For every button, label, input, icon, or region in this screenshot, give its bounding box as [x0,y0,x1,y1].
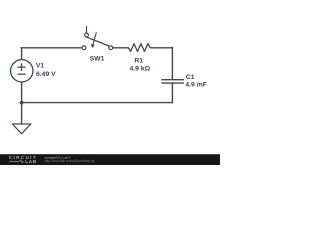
wire V1 top to top-left corner [21,48,23,60]
SW1 top throw stub [86,26,88,33]
footer logo LAB [9,160,20,162]
svg-text:http://circuitlab.com/c/5ymvfa: http://circuitlab.com/c/5ymvfasq/1gt [45,159,95,163]
svg-text:4.9 mF: 4.9 mF [185,82,207,89]
svg-text:SW1: SW1 [90,55,105,62]
svg-text:6.49 V: 6.49 V [36,71,56,78]
resistor R1 [128,44,150,52]
SW1 right terminal [109,46,113,50]
junction node [20,101,24,105]
SW1 top terminal [85,33,89,37]
wire top-left horizontal to switch [21,47,82,49]
wire bottom horizontal [22,102,173,104]
wire switch right terminal to resistor [113,47,129,49]
svg-text:C1: C1 [186,74,195,81]
switch SW1 [82,26,113,49]
SW1 lever [86,37,109,46]
wire junction to ground [21,103,23,124]
footer bar [0,154,220,165]
svg-text:R1: R1 [134,58,143,65]
wire top-right corner down to capacitor [171,47,173,79]
svg-text:V1: V1 [36,63,45,70]
voltage source V1 [11,60,33,82]
svg-text:4.9 kΩ: 4.9 kΩ [130,65,151,72]
ground [12,124,30,134]
wire resistor to top-right corner [150,47,172,49]
wire capacitor bottom to bottom-right corner [171,83,173,103]
svg-text:LAB: LAB [25,159,37,164]
SW1 left terminal [82,46,86,50]
SW1 actuator arrow [93,32,96,44]
capacitor C1 [161,80,184,83]
wire V1 bottom to junction [21,82,23,102]
